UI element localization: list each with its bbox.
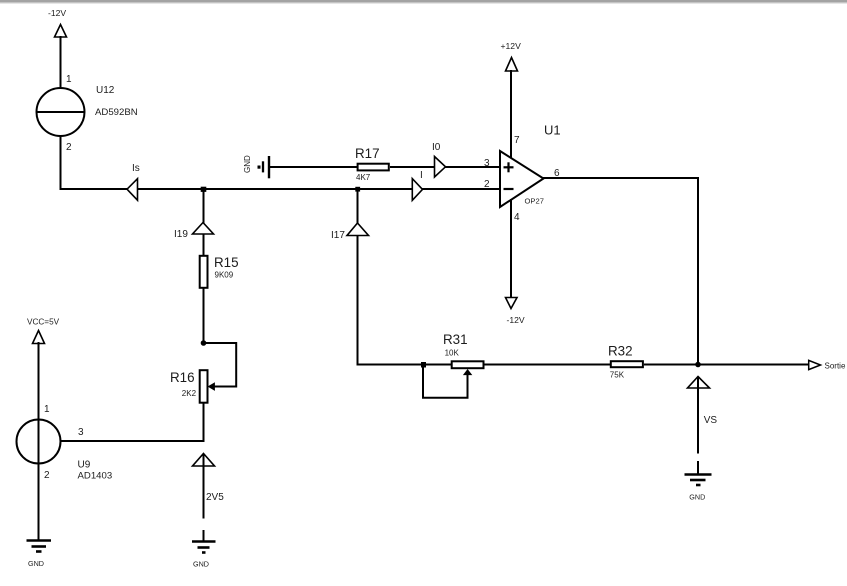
svg-text:-12V: -12V: [48, 8, 66, 18]
svg-text:75K: 75K: [610, 371, 625, 380]
power net VCC=5V: [27, 318, 60, 344]
svg-text:R32: R32: [608, 344, 633, 359]
svg-text:U12: U12: [96, 85, 115, 96]
svg-text:2: 2: [44, 470, 50, 481]
svg-text:U1: U1: [544, 123, 561, 138]
wire op-amp output right: [543, 177, 699, 179]
svg-text:I0: I0: [432, 142, 441, 153]
svg-text:-12V: -12V: [507, 315, 525, 325]
node D junction: [695, 362, 701, 368]
svg-text:3: 3: [78, 427, 84, 438]
svg-text:2V5: 2V5: [206, 492, 224, 503]
potentiometer R31: [452, 361, 484, 368]
voltage reference U9: [17, 420, 61, 464]
svg-text:VCC=5V: VCC=5V: [27, 318, 60, 327]
svg-text:2: 2: [66, 142, 72, 153]
power net +12V: [501, 41, 522, 71]
output port Sortie: [809, 360, 846, 370]
ground symbol (below VS): [685, 461, 712, 502]
svg-text:AD1403: AD1403: [78, 471, 113, 482]
ground symbol GND (rotated, at R17 input): [243, 155, 269, 178]
svg-text:U9: U9: [78, 460, 91, 471]
svg-text:VS: VS: [704, 415, 718, 426]
svg-text:R31: R31: [443, 332, 468, 347]
wire node D to output port: [698, 364, 809, 366]
wire node B down to bottom rail: [357, 190, 359, 366]
svg-text:GND: GND: [28, 559, 44, 568]
wire R16 down to corner: [203, 403, 205, 443]
current arrow I0: [432, 142, 446, 177]
wire R15 to node C: [203, 288, 205, 344]
svg-text:I19: I19: [174, 229, 188, 240]
svg-text:2K2: 2K2: [182, 389, 197, 398]
wire U12 to node A: [60, 188, 204, 190]
wire R17 to op-amp pin 3: [390, 166, 500, 168]
svg-text:7: 7: [514, 135, 520, 146]
op-amp U1: [500, 151, 544, 207]
ground symbol (below 2V5): [192, 530, 216, 568]
wire ground to R17: [269, 166, 357, 168]
wire U9 pin 3 to corner: [61, 440, 205, 442]
wire node A to node B: [203, 188, 358, 190]
svg-text:GND: GND: [689, 493, 705, 502]
current arrow I19: [174, 223, 214, 241]
svg-text:GND: GND: [243, 155, 252, 173]
svg-text:Is: Is: [132, 163, 140, 174]
svg-text:AD592BN: AD592BN: [95, 107, 138, 118]
current arrow Is: [127, 163, 140, 200]
wire VCC through U9 to ground: [38, 342, 40, 540]
current arrow I: [412, 170, 422, 200]
current source U12: [37, 88, 85, 136]
wire -12V to U12 pin 1: [60, 36, 62, 89]
svg-text:R15: R15: [214, 255, 239, 270]
power net -12V (below U1): [506, 298, 525, 326]
wire R31 to R32: [485, 364, 611, 366]
node E junction: [421, 362, 426, 368]
svg-text:R17: R17: [355, 146, 380, 161]
pin 7 wire (V+): [510, 70, 512, 158]
resistor R15: [200, 256, 208, 288]
svg-text:I17: I17: [331, 230, 345, 241]
svg-text:Sortie: Sortie: [825, 361, 846, 370]
current arrow I17: [331, 223, 369, 241]
svg-text:4K7: 4K7: [356, 173, 371, 182]
svg-text:+12V: +12V: [501, 41, 522, 51]
svg-text:R16: R16: [170, 370, 195, 385]
ground symbol (below U9): [27, 541, 52, 568]
pin 4 wire (V-): [510, 199, 512, 298]
svg-text:1: 1: [44, 404, 50, 415]
power net -12V (top left): [48, 8, 67, 37]
voltage arrow VS: [688, 377, 718, 454]
wire output down to node D: [697, 178, 699, 365]
svg-text:GND: GND: [193, 559, 209, 568]
svg-text:1: 1: [66, 74, 72, 85]
svg-text:2: 2: [484, 179, 490, 190]
node A junction: [201, 187, 207, 192]
wire R31 wiper loop: [423, 366, 471, 398]
svg-text:10K: 10K: [445, 348, 460, 357]
resistor R32: [611, 361, 643, 367]
svg-text:3: 3: [484, 158, 490, 169]
node B junction: [355, 187, 360, 192]
wire U12 pin 2 down: [60, 135, 62, 190]
wire bottom rail to R31: [357, 364, 452, 366]
potentiometer R16: [200, 370, 208, 403]
wire node B to op-amp pin 2: [358, 188, 500, 190]
svg-text:9K09: 9K09: [215, 270, 234, 279]
svg-text:4: 4: [514, 212, 520, 223]
wire R16 wiper loop: [204, 343, 236, 390]
wire R32 to node D: [644, 364, 698, 366]
wire node A down to R15: [203, 189, 205, 257]
svg-text:I: I: [420, 170, 423, 181]
resistor R17: [358, 164, 389, 171]
svg-text:OP27: OP27: [525, 196, 544, 205]
node C junction: [201, 340, 207, 346]
voltage arrow 2V5: [193, 454, 225, 519]
